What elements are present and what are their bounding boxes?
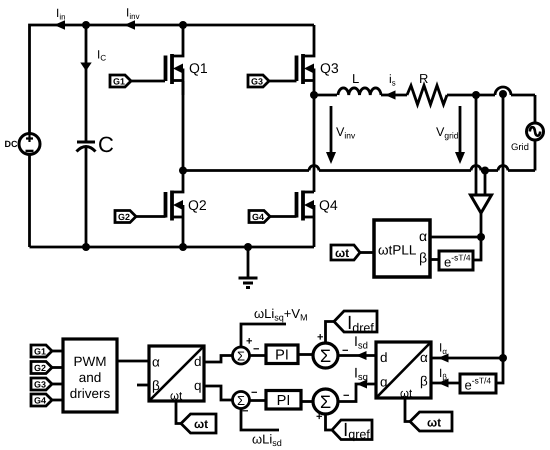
summer S2 (d current error) [313, 334, 348, 368]
node: top rail / C branch [82, 21, 90, 29]
delay block e^-sT/4 (PLL) [439, 251, 473, 270]
transistor Q4 [297, 191, 338, 248]
wire: DC bus left bottom [28, 155, 31, 247]
arrow + label I_inv [124, 8, 140, 30]
wire: ab->dq block ωt stub [405, 398, 410, 422]
wire: d input jog [204, 356, 233, 363]
tag I_qref [332, 420, 372, 441]
wire: q input jog [204, 386, 233, 400]
inductor L [338, 74, 381, 95]
tag G4 (control) [31, 394, 63, 406]
wire: PI2 to S4 [250, 399, 267, 402]
resistor R [407, 74, 447, 104]
tag ωt (PLL input) [331, 245, 374, 260]
wire: inductor to resistor [381, 94, 407, 97]
node: Q2 source / bottom rail [179, 243, 187, 251]
summer S3 (q current error) [313, 389, 349, 419]
transistor Q3 [297, 25, 339, 95]
node: V_grid sense [472, 91, 480, 99]
tag ωt (ab->dq) [410, 412, 452, 431]
wire + arrow + label I_beta [431, 369, 460, 388]
ac source Grid [512, 123, 544, 150]
node: top rail / Q1 branch [179, 21, 187, 29]
tag G2 (control) [31, 362, 63, 374]
wire: Q1 source to mid rail [182, 81, 185, 171]
arrow + label V_grid [436, 106, 465, 164]
arrow + label I_C [80, 50, 106, 71]
transistor Q1 [166, 25, 208, 95]
transistor Q2 [166, 171, 207, 248]
node: v-alpha [477, 233, 485, 241]
arrow + label i_s [385, 74, 396, 99]
transform block dq->ab [149, 346, 204, 401]
current sensor on i_s [495, 87, 535, 98]
wire: mid rail tap to triangle [484, 171, 487, 196]
arrow + label I_in [54, 9, 65, 30]
node: bottom rail / C branch [82, 243, 90, 251]
wire: grid loop right [534, 95, 537, 171]
PLL block [374, 220, 430, 277]
tag ωt (dq->ab) [181, 414, 216, 433]
wire: output to inductor [314, 94, 337, 97]
wire: sense to delay 2 [496, 358, 503, 383]
wire: capacitor branch top [85, 25, 88, 142]
tag G4 [249, 211, 297, 223]
tag I_dref [334, 311, 377, 332]
wire: I_qref to S3 [326, 414, 333, 430]
wire: DC bus left + top rail [30, 25, 315, 133]
tag G1 [110, 75, 165, 87]
wire: resistor to grid [447, 94, 495, 97]
ground [239, 243, 258, 288]
PWM and drivers block [63, 339, 117, 412]
wire: Q3 source to Q4 drain (through hop) [313, 95, 316, 192]
tag G3 (control) [31, 378, 63, 390]
node: mid rail sense tap [481, 167, 489, 175]
wire: beta stub [137, 384, 149, 387]
delay block e^-sT/4 (control) [460, 374, 496, 393]
wire: mid rail (with hops) [183, 166, 535, 171]
wire: V sense line (top node to triangle) [475, 95, 478, 195]
tag G3 [248, 75, 297, 87]
wire: node to PLL alpha [430, 236, 481, 239]
tag G1 (control) [31, 345, 63, 357]
wire: triangle output down [480, 213, 483, 237]
node: mid rail left [179, 167, 187, 175]
transform block ab->dq [376, 342, 431, 398]
voltage sensor triangle [471, 195, 492, 213]
wire: I_dref to S2 [326, 322, 335, 344]
wire + label ωLi_sd feed [241, 409, 281, 447]
arrow + label V_inv [326, 106, 355, 164]
wire + label ωLi_sq+V_M feed [241, 309, 307, 347]
summer S1 (d axis feedforward) [233, 338, 260, 364]
PI controller 1 [266, 345, 298, 364]
wire + arrow + label I_sq (q feedback) [338, 368, 376, 402]
wire: bottom rail [30, 246, 315, 249]
wire + arrow + label I_alpha [431, 343, 503, 362]
capacitor C [77, 137, 114, 153]
wire + arrow + label I_sd (d feedback) [338, 336, 376, 360]
node: I_alpha tap [499, 354, 507, 362]
wire: PI1 to S2 [298, 353, 313, 356]
wire: S3 to PI2 [301, 400, 313, 403]
wire: capacitor branch bottom [85, 148, 88, 247]
wire: S1 to PI1 [250, 354, 267, 357]
PI controller 2 [266, 391, 301, 410]
dc source V1 [5, 134, 40, 155]
wire: current sense line down [502, 95, 505, 358]
tag G2 [115, 211, 166, 223]
wire: PWM to dq/ab block [117, 360, 149, 363]
wire: dq/ab block ωt stub [176, 401, 181, 424]
node: Q3 source output [310, 91, 318, 99]
wire: delay to PLL beta [430, 258, 439, 261]
summer S4 (q axis feedforward) [233, 392, 258, 412]
wire: node to delay block [473, 237, 481, 260]
